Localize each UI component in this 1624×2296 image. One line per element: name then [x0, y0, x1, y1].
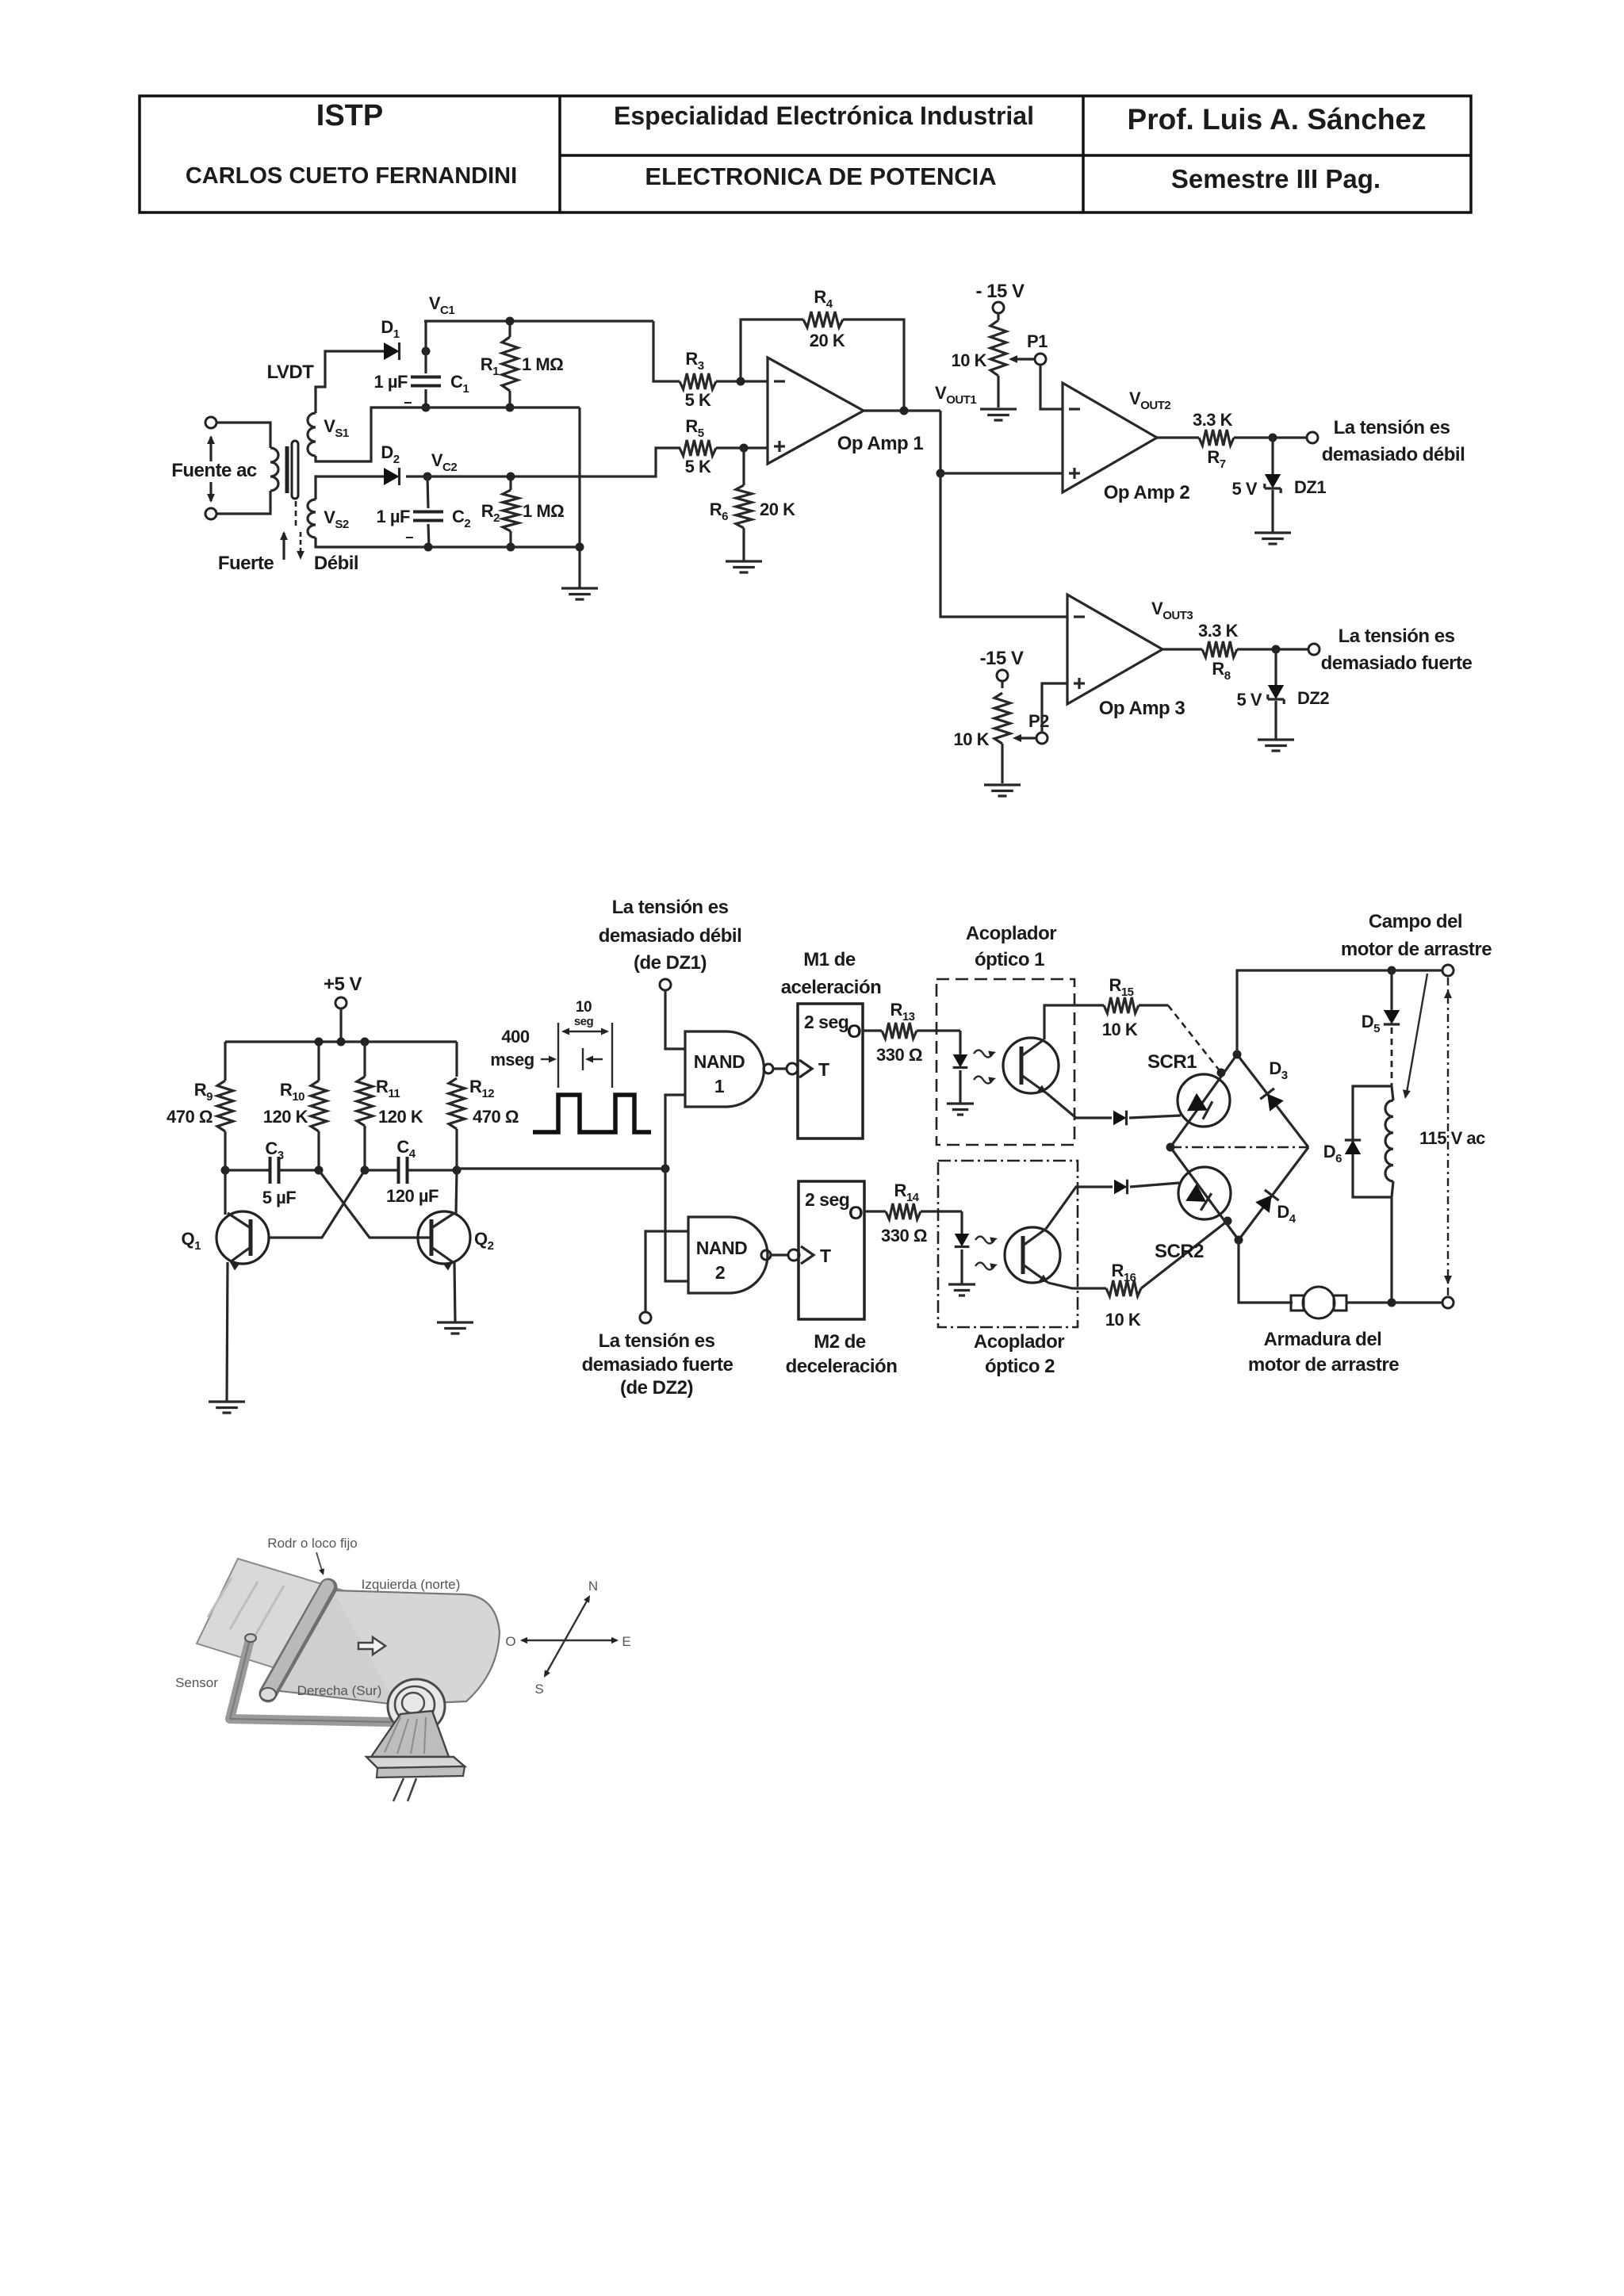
terminal -15V P2 — [997, 670, 1008, 681]
ac source Fuente ac terminals — [205, 417, 216, 428]
light arrows opto2 — [975, 1237, 994, 1244]
terminal output 2 — [1308, 644, 1319, 655]
ac supply dashed line — [1447, 978, 1449, 1295]
svg-text:ELECTRONICA DE POTENCIA: ELECTRONICA DE POTENCIA — [645, 163, 996, 190]
wire Vs2 top to D2 — [316, 476, 384, 499]
illustration cone — [371, 1711, 449, 1757]
resistor R12 470 — [455, 1042, 458, 1077]
svg-text:Débil: Débil — [314, 553, 358, 574]
svg-text:demasiado débil: demasiado débil — [1322, 444, 1465, 465]
feedback resistor R4 20K — [741, 320, 803, 381]
capacitor C2 — [427, 476, 428, 508]
svg-text:120 µF: 120 µF — [386, 1186, 439, 1206]
wire R3 to minus node — [716, 380, 768, 382]
svg-text:Derecha (Sur): Derecha (Sur) — [297, 1683, 382, 1698]
opamp2 minus sign — [1069, 408, 1080, 410]
wire bottom rail — [316, 538, 580, 547]
wire bridge top to rail — [1237, 970, 1442, 1054]
wire bridge edge SCR2 — [1170, 1147, 1239, 1240]
svg-text:NAND: NAND — [696, 1238, 747, 1258]
node opamp1 plus — [740, 444, 749, 453]
svg-text:T: T — [820, 1246, 831, 1266]
ac source arrows — [209, 437, 212, 461]
diode D4 — [1255, 1195, 1272, 1212]
secondary winding Vs1 — [308, 413, 316, 456]
resistor R8 3.3K — [1162, 648, 1202, 650]
svg-text:La tensión es: La tensión es — [599, 1330, 715, 1352]
node opamp1 minus — [737, 377, 745, 386]
illustration sensor arm — [230, 1640, 390, 1722]
svg-text:20 K: 20 K — [810, 331, 845, 350]
resistor R6 20K to ground — [742, 448, 745, 485]
wire opamp1 output Vout1 — [864, 409, 940, 411]
node DZ1 top — [1269, 434, 1277, 442]
wire clock line to NAND junction — [457, 1167, 665, 1169]
NAND2 output bubble — [761, 1250, 771, 1260]
svg-text:2 seg: 2 seg — [805, 1189, 849, 1210]
wire bridge horizontal link — [1170, 1146, 1308, 1149]
wire down to opamp3 — [940, 473, 1067, 617]
freewheel loop with D6 — [1353, 1086, 1392, 1197]
cross coupling Q2 base — [319, 1170, 431, 1238]
svg-text:3.3 K: 3.3 K — [1193, 410, 1233, 430]
illustration wires — [393, 1778, 416, 1801]
svg-text:330 Ω: 330 Ω — [876, 1045, 922, 1065]
wire opto2 emitter to R16 — [1048, 1283, 1106, 1288]
thyristor SCR1 — [1178, 1074, 1230, 1127]
svg-text:SCR2: SCR2 — [1155, 1241, 1204, 1262]
transistor Q1 — [216, 1211, 269, 1264]
svg-text:470 Ω: 470 Ω — [167, 1107, 213, 1127]
svg-text:Acoplador: Acoplador — [974, 1331, 1064, 1353]
svg-text:Izquierda (norte): Izquierda (norte) — [362, 1577, 461, 1592]
svg-text:NAND: NAND — [694, 1051, 745, 1072]
svg-text:O: O — [505, 1634, 515, 1649]
thyristor SCR2 — [1178, 1167, 1231, 1219]
diode D3 — [1267, 1094, 1284, 1112]
wire R5 to plus node — [716, 446, 768, 449]
illustration tape arrow — [358, 1637, 385, 1655]
node Q1 collector — [221, 1166, 230, 1175]
svg-text:La tensión es: La tensión es — [1334, 417, 1450, 438]
node clock junction — [661, 1165, 670, 1173]
wire coil to bottom rail — [1390, 1197, 1392, 1303]
svg-text:−: − — [405, 530, 413, 545]
resistor R5 5K — [680, 440, 716, 456]
wire gate diode to SCR1 — [1129, 1115, 1181, 1118]
one-shot M1 box — [798, 1004, 863, 1138]
dimension 400 mseg arrows — [541, 1058, 553, 1060]
LED opto1 — [959, 1031, 961, 1054]
svg-text:2 seg: 2 seg — [804, 1012, 848, 1032]
M1 input bubble and chevron — [787, 1063, 798, 1074]
svg-text:óptico 2: óptico 2 — [985, 1356, 1055, 1377]
svg-text:10 K: 10 K — [1102, 1020, 1138, 1039]
waveform tick left — [557, 1023, 559, 1088]
resistor R3 5K — [680, 373, 716, 389]
svg-text:aceleración: aceleración — [781, 977, 882, 998]
svg-text:470 Ω: 470 Ω — [473, 1107, 519, 1127]
svg-text:5 µF: 5 µF — [262, 1188, 297, 1207]
op-amp U1 Op Amp 1 — [768, 358, 864, 464]
node Q2 collector — [453, 1166, 462, 1175]
wire Q2 emitter to ground — [454, 1262, 455, 1322]
svg-text:ISTP: ISTP — [316, 99, 383, 132]
wire DZ2 to NAND2 input — [645, 1231, 688, 1312]
svg-text:-15 V: -15 V — [980, 648, 1024, 669]
resistor R16 10K — [1106, 1280, 1141, 1296]
svg-text:Sensor: Sensor — [175, 1675, 218, 1690]
svg-text:Rodr o loco fijo: Rodr o loco fijo — [267, 1536, 357, 1551]
ground LED2 — [948, 1284, 975, 1295]
M2 input bubble and chevron — [788, 1249, 799, 1261]
arrow Fuerte — [282, 533, 285, 560]
wire Q1 emitter to ground — [227, 1262, 228, 1402]
svg-text:M2 de: M2 de — [814, 1331, 866, 1353]
waveform tick right — [611, 1023, 613, 1088]
svg-text:demasiado débil: demasiado débil — [599, 925, 742, 947]
svg-text:(de DZ1): (de DZ1) — [634, 952, 707, 974]
node C4 left — [361, 1166, 370, 1175]
gate diode SCR1 — [1113, 1111, 1127, 1126]
armature motor symbol — [1291, 1295, 1304, 1311]
svg-text:Op Amp 2: Op Amp 2 — [1104, 482, 1190, 503]
svg-text:20 K: 20 K — [760, 499, 795, 519]
node D1 cathode — [422, 347, 431, 356]
svg-text:seg: seg — [574, 1015, 594, 1028]
wire R15 to SCR1 anode dashed — [1139, 1004, 1168, 1006]
svg-text:(de DZ2): (de DZ2) — [620, 1377, 693, 1399]
opamp2 plus sign — [1069, 472, 1080, 474]
cross coupling Q1 base — [269, 1170, 365, 1238]
svg-text:Campo del: Campo del — [1369, 911, 1462, 932]
wire Vc1 rail — [424, 320, 653, 322]
transistor Q2 — [418, 1211, 470, 1264]
svg-text:La tensión es: La tensión es — [612, 897, 729, 918]
svg-text:Fuerte: Fuerte — [218, 553, 274, 574]
node C1 bottom — [422, 404, 431, 412]
illustration pulley — [388, 1679, 445, 1733]
svg-text:5 K: 5 K — [685, 390, 711, 410]
opamp3 plus sign — [1074, 682, 1085, 684]
svg-text:DZ2: DZ2 — [1297, 688, 1329, 708]
wire gate diode to SCR2 — [1130, 1183, 1179, 1187]
pointer to coil — [1407, 974, 1427, 1093]
svg-text:DZ1: DZ1 — [1294, 477, 1326, 497]
svg-text:Fuente ac: Fuente ac — [171, 460, 257, 481]
op-amp U3 Op Amp 3 — [1067, 595, 1162, 704]
svg-text:10: 10 — [576, 999, 592, 1016]
ground DZ2 — [1258, 740, 1294, 751]
wire D1 node up to Vc1 rail — [424, 321, 427, 351]
terminal output 1 — [1307, 432, 1318, 443]
illustration compass — [522, 1640, 617, 1641]
ground P1 — [980, 409, 1017, 420]
svg-text:mseg: mseg — [490, 1050, 534, 1070]
SCR1 anode node — [1217, 1069, 1226, 1077]
ground Q2 — [437, 1322, 473, 1334]
ground Q1 — [209, 1402, 245, 1413]
wire Q2 collector — [456, 1170, 457, 1215]
svg-text:motor de arrastre: motor de arrastre — [1248, 1354, 1399, 1376]
P2 wiper arrow — [1016, 737, 1037, 739]
ground R6 — [726, 561, 762, 572]
svg-text:óptico 1: óptico 1 — [975, 949, 1044, 970]
zener diode DZ1 5V — [1271, 438, 1274, 474]
svg-text:1 MΩ: 1 MΩ — [522, 354, 563, 374]
illustration paper sheet — [197, 1559, 346, 1679]
phototransistor opto1 — [1003, 1038, 1059, 1093]
wire rail2 down to ground — [578, 408, 580, 588]
svg-text:demasiado fuerte: demasiado fuerte — [582, 1354, 733, 1376]
svg-text:Semestre III Pag.: Semestre III Pag. — [1171, 164, 1381, 193]
svg-text:120 K: 120 K — [263, 1107, 308, 1127]
light arrows opto1 — [974, 1050, 993, 1058]
svg-text:demasiado fuerte: demasiado fuerte — [1321, 652, 1473, 674]
opamp1 minus sign — [774, 380, 785, 382]
wire bridge edge D4 — [1239, 1147, 1308, 1240]
node C3 right — [315, 1166, 324, 1175]
capacitor C1 — [424, 351, 427, 373]
terminal -15V P1 — [993, 302, 1004, 313]
svg-text:Especialidad Electrónica Indus: Especialidad Electrónica Industrial — [614, 101, 1034, 130]
wire M2 output — [864, 1210, 886, 1212]
wire Vs1 top to D1 — [316, 351, 384, 413]
NAND1 output bubble — [764, 1064, 773, 1073]
LED opto2 — [960, 1211, 963, 1234]
nand gate NAND1 — [685, 1031, 764, 1107]
svg-text:motor de arrastre: motor de arrastre — [1341, 939, 1492, 960]
wire Q1 collector — [224, 1170, 226, 1215]
header table frame — [140, 96, 1471, 212]
illustration base plate — [366, 1757, 465, 1768]
svg-text:S: S — [534, 1682, 543, 1697]
svg-text:1: 1 — [714, 1076, 725, 1096]
wire armature to terminal — [1346, 1301, 1442, 1303]
core rod dashed — [295, 501, 297, 530]
ground LED1 — [947, 1104, 974, 1115]
wire bridge edge SCR1 — [1170, 1054, 1237, 1147]
potentiometer P2 10K — [1001, 681, 1003, 688]
svg-text:M1 de: M1 de — [803, 949, 856, 970]
one-shot M2 box — [799, 1181, 864, 1319]
svg-text:E: E — [622, 1634, 630, 1649]
capacitor C3 5uF — [225, 1169, 270, 1171]
terminal from DZ2 — [640, 1312, 651, 1323]
wire DZ1 to NAND1 input — [665, 990, 685, 1049]
phototransistor opto2 — [1005, 1227, 1060, 1283]
svg-text:10 K: 10 K — [1105, 1310, 1141, 1330]
svg-text:LVDT: LVDT — [267, 362, 315, 383]
diode D2 — [384, 468, 400, 485]
wire to opamp2 plus input — [940, 472, 1063, 474]
svg-text:5 V: 5 V — [1236, 690, 1262, 710]
wire Vc1 corner to R3 — [653, 321, 680, 381]
ground DZ1 — [1254, 533, 1291, 544]
P2 wiper terminal — [1036, 733, 1048, 744]
svg-text:+5 V: +5 V — [324, 974, 362, 995]
svg-text:5 K: 5 K — [685, 457, 711, 476]
clock waveform — [533, 1095, 651, 1132]
wire M1 output — [863, 1029, 882, 1031]
terminal +5V — [335, 997, 347, 1008]
resistor R7 3.3K — [1157, 436, 1199, 438]
svg-text:N: N — [588, 1578, 598, 1594]
illustration roller cylinder — [268, 1587, 328, 1693]
secondary winding Vs2 — [308, 499, 316, 538]
wire opto1 emitter to gate diode — [1047, 1093, 1112, 1118]
svg-text:1 µF: 1 µF — [374, 372, 408, 392]
svg-text:2: 2 — [715, 1262, 725, 1283]
svg-text:SCR1: SCR1 — [1147, 1051, 1197, 1073]
optocoupler 1 dashed box — [936, 979, 1074, 1145]
svg-text:3.3 K: 3.3 K — [1198, 621, 1239, 641]
wire Vout1 down to comparators — [939, 411, 941, 473]
opamp1 plus sign — [774, 445, 785, 447]
node D2 cathode — [423, 473, 432, 481]
svg-text:deceleración: deceleración — [786, 1356, 898, 1377]
wire opto2 collector to gate diode — [1046, 1187, 1113, 1229]
wire rail2 minus side — [316, 408, 580, 461]
wire P1 wiper to opamp2 minus — [1040, 365, 1063, 409]
svg-text:400: 400 — [501, 1027, 529, 1047]
svg-text:330 Ω: 330 Ω — [881, 1226, 927, 1246]
svg-text:10 K: 10 K — [954, 729, 990, 749]
P1 wiper arrow — [1012, 358, 1036, 360]
wire P2 wiper to opamp3 plus — [1042, 683, 1067, 733]
wire NAND1 lower input to clock and NAND2 lower input — [665, 1095, 688, 1281]
resistor R15 10K — [1104, 997, 1139, 1013]
svg-text:P1: P1 — [1027, 331, 1048, 351]
wire +5V to rail — [339, 1008, 342, 1042]
svg-text:Prof. Luis A. Sánchez: Prof. Luis A. Sánchez — [1128, 103, 1427, 136]
svg-text:O: O — [848, 1203, 863, 1224]
node DZ2 top — [1272, 645, 1281, 654]
wire R16 to bridge bottom — [1141, 1221, 1228, 1288]
svg-text:Acoplador: Acoplador — [966, 923, 1056, 944]
terminal ac top — [1442, 965, 1454, 976]
svg-text:La tensión es: La tensión es — [1339, 626, 1455, 647]
dimension 10 seg arrows — [565, 1031, 606, 1032]
nand gate NAND2 — [688, 1217, 768, 1293]
svg-text:Armadura del: Armadura del — [1264, 1329, 1382, 1350]
svg-text:T: T — [818, 1059, 829, 1080]
resistor R11 120K — [363, 1042, 366, 1077]
svg-text:O: O — [847, 1021, 861, 1043]
zener diode DZ2 5V — [1274, 649, 1277, 685]
svg-text:CARLOS CUETO FERNANDINI: CARLOS CUETO FERNANDINI — [186, 163, 517, 189]
wire bridge bottom to armature — [1239, 1240, 1293, 1303]
P1 wiper terminal — [1035, 354, 1046, 365]
bridge nodes — [1233, 1050, 1242, 1059]
resistor R9 470 — [224, 1042, 226, 1081]
diode D6 — [1345, 1140, 1361, 1154]
svg-text:1 µF: 1 µF — [377, 507, 411, 526]
svg-text:- 15 V: - 15 V — [975, 281, 1025, 302]
terminal ac bottom — [1442, 1297, 1454, 1308]
field coil inductor — [1392, 1086, 1393, 1100]
svg-text:10 K: 10 K — [952, 350, 987, 370]
ground P2 — [984, 785, 1021, 796]
wire NAND1 to M1 — [773, 1067, 787, 1070]
svg-text:Op Amp 3: Op Amp 3 — [1099, 698, 1185, 719]
resistor R2 1M — [509, 476, 511, 490]
potentiometer P1 10K — [997, 313, 999, 320]
resistor R10 120K — [317, 1042, 320, 1081]
svg-text:P2: P2 — [1028, 711, 1049, 731]
wire NAND2 to M2 — [771, 1253, 788, 1256]
gate diode SCR2 — [1114, 1180, 1128, 1195]
resistor R1 1M — [508, 321, 511, 337]
svg-text:1 MΩ: 1 MΩ — [523, 501, 564, 521]
resistor R13 330 — [882, 1023, 917, 1039]
optocoupler 2 dashed box — [938, 1161, 1078, 1327]
terminal from DZ1 — [660, 979, 671, 990]
wire bridge edge D3 — [1237, 1054, 1308, 1147]
wire supply rail — [225, 1040, 457, 1043]
svg-text:5 V: 5 V — [1231, 479, 1257, 499]
opamp3 minus sign — [1074, 615, 1085, 618]
svg-text:115 V ac: 115 V ac — [1419, 1128, 1485, 1148]
transformer core bars — [285, 446, 289, 493]
wire opto1 collector to R15 — [1044, 1005, 1104, 1039]
capacitor C4 120uF — [365, 1169, 399, 1171]
diode D5 — [1390, 970, 1392, 1010]
svg-text:120 K: 120 K — [378, 1107, 423, 1127]
wire Vc2 rail to R5 corner — [406, 448, 680, 476]
wire ac source to primary — [216, 423, 270, 514]
op-amp U2 Op Amp 2 — [1063, 383, 1157, 492]
arrow Debil dashed — [300, 532, 302, 555]
resistor R14 330 — [886, 1203, 921, 1219]
ground lvdt detector — [561, 588, 598, 599]
svg-text:Op Amp 1: Op Amp 1 — [837, 433, 924, 454]
diode D1 — [384, 342, 400, 360]
illustration tape band — [333, 1590, 500, 1705]
transformer primary winding — [270, 448, 278, 491]
